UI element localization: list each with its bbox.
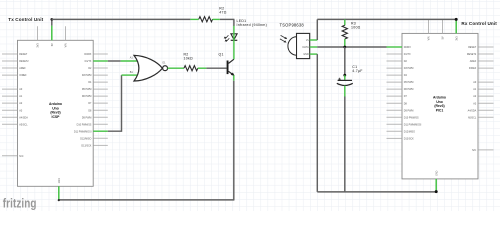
svg-text:Q1: Q1	[219, 53, 224, 57]
wire C1 to ground rail	[344, 97, 346, 192]
C1 plus sign	[338, 78, 341, 81]
svg-text:D10 PWM/SS: D10 PWM/SS	[404, 116, 419, 119]
U1 right side pins D0-D13	[93, 54, 108, 145]
U1 top pin VIN	[65, 26, 67, 40]
U1 pin D1/TX leg	[93, 60, 108, 62]
svg-text:D0/RX: D0/RX	[404, 46, 411, 49]
svg-text:5V: 5V	[442, 36, 445, 39]
svg-text:PIC1: PIC1	[436, 109, 444, 113]
IC U2 Arduino Uno (Rev3) PIC1 body	[402, 33, 478, 179]
label LED1 Infrared (940nm)	[237, 19, 268, 27]
LED1 emission arrows	[224, 35, 230, 41]
Q1 emitter leg	[233, 75, 235, 81]
svg-text:RESET: RESET	[19, 53, 28, 56]
svg-text:D3 PWM: D3 PWM	[404, 67, 414, 70]
svg-text:IOREF: IOREF	[19, 74, 27, 77]
svg-text:D5 PWM: D5 PWM	[82, 88, 92, 91]
svg-text:TSOP98638: TSOP98638	[280, 22, 305, 27]
svg-text:fritzing: fritzing	[3, 197, 37, 210]
svg-text:D3 PWM: D3 PWM	[82, 74, 92, 77]
IC U1 Arduino Uno (Rev3) ICSP body	[18, 40, 94, 186]
svg-text:A4/SDA: A4/SDA	[19, 116, 28, 119]
U2 top pin 3V3 leg	[455, 19, 457, 33]
svg-text:RESET: RESET	[468, 46, 477, 49]
svg-text:D6 PWM: D6 PWM	[404, 88, 414, 91]
svg-text:D6 PWM: D6 PWM	[82, 95, 92, 98]
NOR output leg / R2 10k left lead	[168, 67, 184, 69]
svg-text:D12/MISO: D12/MISO	[80, 137, 91, 140]
wire TSOP GND drop	[316, 54, 318, 192]
svg-text:3V3: 3V3	[37, 43, 40, 48]
svg-text:RESET2: RESET2	[19, 60, 29, 63]
U2 left side pin labels	[404, 46, 422, 140]
svg-text:AREF: AREF	[19, 67, 26, 70]
TSOP98638 receiver U4 body	[288, 33, 310, 58]
svg-text:DATA: DATA	[303, 46, 310, 49]
svg-text:D1/TX: D1/TX	[85, 60, 92, 63]
U2 top pin 5V	[441, 20, 443, 34]
junction dot U2 GND	[435, 190, 438, 193]
junction dot R3/DATA	[343, 46, 346, 49]
resistor R2 10k ohm	[184, 66, 206, 71]
wire R2 to LED1	[220, 18, 235, 20]
svg-text:47Ω: 47Ω	[219, 11, 226, 15]
NOR gate U3 output bubble	[163, 66, 168, 71]
label C1 4.7uF	[352, 65, 362, 73]
wire 5V riser from U1	[51, 19, 53, 25]
svg-text:VIN: VIN	[428, 36, 431, 40]
svg-text:N/C: N/C	[19, 155, 23, 158]
label R3 100 ohm	[351, 22, 361, 30]
U2 top pin VIN	[428, 20, 430, 34]
svg-text:IOREF: IOREF	[469, 67, 477, 70]
U2 right side pins	[478, 47, 494, 150]
U2 right side pin labels	[467, 46, 477, 152]
wire top 5V rail to R2	[52, 18, 191, 20]
svg-text:D10 PWM/SS: D10 PWM/SS	[77, 123, 92, 126]
resistor R2 47 ohm	[190, 17, 219, 22]
label R2 10k ohm	[184, 52, 193, 60]
LED1 infrared diode	[231, 26, 238, 60]
U2 center label Arduino Uno (Rev3) PIC1	[433, 96, 446, 113]
svg-text:Infrared (940nm): Infrared (940nm)	[237, 23, 268, 27]
svg-text:D9 PWM: D9 PWM	[82, 116, 92, 119]
U1 pin D11 PWM/MOSI leg	[93, 130, 108, 132]
wire DATA node down to C1	[344, 47, 346, 75]
svg-text:D9 PWM: D9 PWM	[404, 109, 414, 112]
svg-text:D12/MISO: D12/MISO	[404, 130, 415, 133]
svg-text:GND: GND	[303, 53, 309, 56]
wire D1/TX to gate input A1	[108, 60, 121, 62]
svg-text:ICSP: ICSP	[52, 115, 61, 119]
wire R2 10k to Q1 base	[206, 67, 226, 69]
wire Q1 emitter to ground rail	[233, 81, 235, 200]
U2 pin D0/RX leg	[387, 46, 403, 48]
label R2 47 ohm	[219, 7, 226, 15]
U1 top pin 5V leg	[51, 26, 53, 41]
wire top supply rail right	[317, 18, 456, 20]
junction at 5V rail corner	[50, 18, 53, 21]
svg-text:A4/SDA: A4/SDA	[468, 109, 477, 112]
U1 top pin labels 3V3 5V VIN	[37, 43, 68, 48]
svg-text:D11 PWM/MOSI: D11 PWM/MOSI	[74, 130, 92, 133]
NOR gate U3 input leg A1	[121, 60, 137, 62]
junction dot U1 GND at rail	[58, 199, 60, 201]
TSOP98638 incoming IR arrows	[280, 35, 287, 42]
junction dot C1 top	[343, 74, 346, 77]
transistor Q1 NPN	[227, 59, 235, 76]
svg-text:100Ω: 100Ω	[351, 26, 361, 30]
svg-text:D0/RX: D0/RX	[84, 53, 91, 56]
wire D11 to gate input B1 vertical	[108, 75, 122, 131]
svg-text:D11 PWM/MOSI: D11 PWM/MOSI	[404, 123, 422, 126]
U1 left side pin labels RESET RESET2 AREF IOREF A0-A5 N/C	[19, 53, 29, 158]
U1 right side pin labels	[74, 53, 92, 147]
svg-text:D5 PWM: D5 PWM	[404, 81, 414, 84]
svg-text:Tx Control Unit: Tx Control Unit	[8, 17, 43, 22]
wire DATA line to U2 D0/RX	[317, 46, 386, 48]
U2 bottom pin GND leg	[435, 179, 437, 192]
wire right ground rail	[317, 191, 436, 193]
svg-text:A5/SCL: A5/SCL	[468, 116, 477, 119]
U2 left side pins D0-D13	[387, 54, 403, 138]
U1 bottom pin GND leg	[58, 186, 60, 199]
wire LED1 drop	[233, 19, 235, 26]
U1 top pin 3V3	[36, 26, 38, 40]
svg-text:D1/TX: D1/TX	[404, 53, 411, 56]
svg-text:A5/SCL: A5/SCL	[19, 123, 28, 126]
svg-text:10kΩ: 10kΩ	[184, 56, 193, 60]
svg-text:AREF: AREF	[470, 60, 477, 63]
capacitor C1 4.7uF polarized	[337, 75, 353, 96]
NOR gate U3 body	[134, 55, 162, 81]
svg-text:GND: GND	[58, 178, 61, 184]
U1 left side pins	[2, 54, 18, 156]
TSOP GND leg	[310, 53, 318, 55]
TSOP Vs leg	[310, 39, 318, 41]
svg-text:VIN: VIN	[65, 43, 68, 47]
svg-text:Rx Control Unit: Rx Control Unit	[461, 21, 497, 26]
svg-text:N/C: N/C	[472, 149, 476, 152]
TSOP98638 pin labels Vs DATA GND	[303, 39, 310, 56]
U2 top pin labels VIN 5V 3V3	[428, 36, 459, 41]
NOR gate port labels A1 B1 O1	[130, 57, 166, 74]
wire Vs riser	[316, 19, 318, 40]
svg-text:D13/SCK: D13/SCK	[404, 137, 414, 140]
resistor R3 100 ohm	[342, 19, 347, 47]
U1 center label Arduino Uno (Rev3) ICSP	[49, 102, 62, 119]
wire bottom ground rail	[59, 199, 235, 201]
TSOP DATA leg	[310, 46, 318, 48]
junction dot at rail end / 3V3	[455, 18, 458, 21]
svg-text:5V: 5V	[51, 43, 54, 46]
svg-text:GND: GND	[435, 170, 438, 176]
svg-text:RESET2: RESET2	[467, 53, 477, 56]
svg-text:D13/SCK: D13/SCK	[81, 144, 91, 147]
NOR gate U3 input leg B1	[122, 74, 138, 76]
svg-text:4.7µF: 4.7µF	[352, 69, 362, 73]
svg-text:3V3: 3V3	[455, 36, 458, 41]
